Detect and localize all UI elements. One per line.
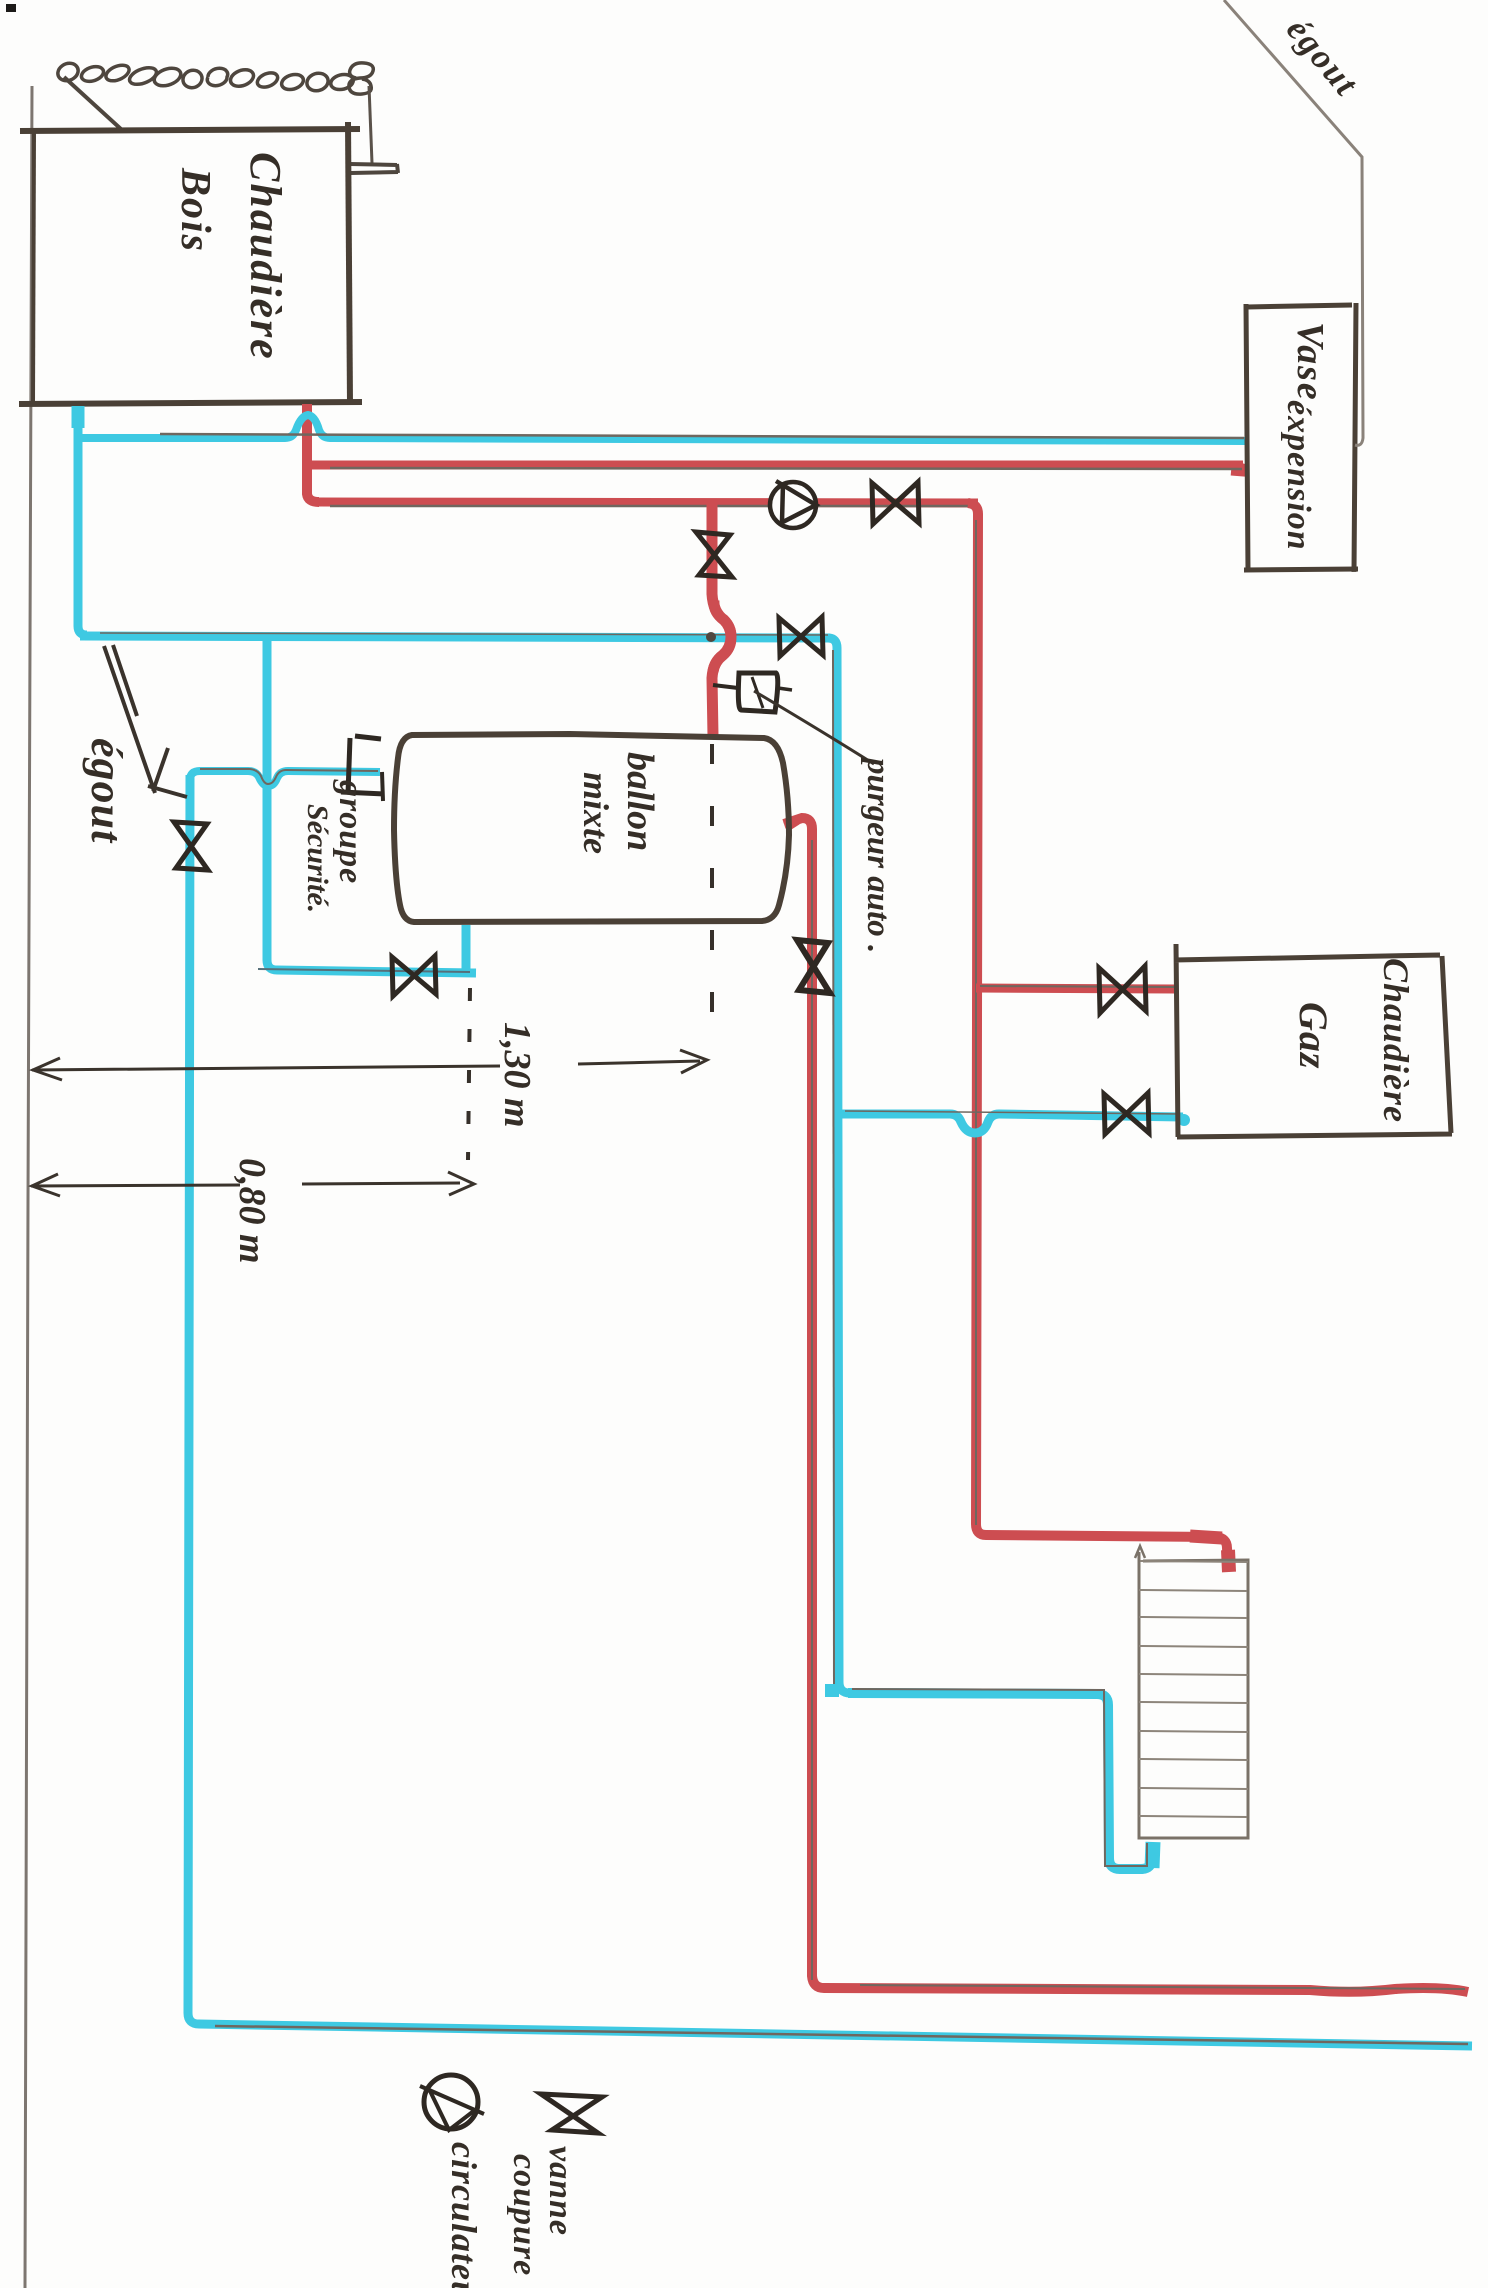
- box: gas boiler (Chaudiere Gaz): [1174, 944, 1452, 1137]
- wire: left wall pencil line: [25, 86, 32, 2288]
- pipe: red hot supply from wood boiler, vertical drop x=307: [307, 404, 319, 502]
- valve V8 on red lower line (bowtie): [872, 482, 919, 524]
- pipe: cyan safety-group line y=771 with hop over x=267: [190, 771, 380, 786]
- circulator pump on red lower line: [770, 482, 816, 528]
- safety group symbol: [355, 736, 381, 739]
- svg-text:égout: égout: [82, 738, 131, 844]
- dimension arrow 0.80 m: [31, 1183, 460, 1186]
- pencil: overflow pipe to sewer (egout): [1224, 0, 1363, 445]
- svg-text:Sécurité.: Sécurité.: [301, 804, 334, 913]
- dashed reference line x=712 (1.30 m height): [710, 744, 714, 1048]
- pipe: cyan drain long vertical x=189 down to bottom: [188, 775, 1472, 2046]
- svg-text:mixte: mixte: [576, 772, 616, 854]
- svg-text:Chaudière: Chaudière: [1376, 958, 1416, 1123]
- dashed reference line x=466 (0.80 m height): [468, 988, 470, 1160]
- pipe: red from tank hot port down long drop x=812: [784, 818, 1468, 1992]
- valve V6 on red gas supply (bowtie): [1099, 966, 1146, 1013]
- pipe: cyan horizontal y=636 to tank zone: [80, 636, 830, 638]
- svg-text:circulateur: circulateur: [444, 2142, 484, 2288]
- pipe: cyan radiator return y=1693: [848, 1693, 1152, 1869]
- svg-text:groupe: groupe: [332, 779, 369, 884]
- radiator: [1139, 1552, 1248, 1838]
- valve V7 on red tank outlet drop (hourglass): [797, 940, 830, 993]
- box: expansion vessel (Vase expansion): [1244, 303, 1358, 572]
- svg-text:1,30 m: 1,30 m: [496, 1022, 538, 1128]
- pipe: cyan down-riser x=837 to radiator return: [828, 638, 850, 1693]
- flue stub on right side of wood boiler: [350, 164, 398, 173]
- svg-text:ballon: ballon: [619, 752, 661, 851]
- svg-text:Chaudière: Chaudière: [241, 152, 290, 361]
- svg-text:éxpension: éxpension: [1280, 400, 1317, 551]
- pipe: cyan cold feed drop x=267 to tank bottom: [267, 636, 476, 975]
- pipe: red branch down to tank top with S-bump over cyan return: [712, 503, 731, 736]
- valve V1 on red drop (hourglass): [696, 532, 732, 577]
- arrow to drain pipe: [104, 645, 155, 793]
- pipe: red lower horizontal y=502 to pump: [316, 502, 978, 503]
- valve V3 on cyan y=971 (bowtie): [392, 956, 436, 996]
- pipe: cyan boiler return drop from box bottom x=78: [78, 406, 87, 635]
- pipe: red main riser x=976 down to radiator level: [968, 503, 1228, 1567]
- pencil guide on red upper: [330, 468, 1242, 469]
- valve V2 on cyan y=636 (bowtie): [779, 617, 823, 656]
- pipe: red upper horizontal y=464 to expansion vessel: [307, 461, 1243, 470]
- pipe: cyan horizontal y=437 to expansion vessel with hop over red: [78, 415, 1247, 441]
- corner speck: [6, 4, 16, 12]
- leader line to purgeur label: [754, 691, 874, 764]
- box: Chaudiere Bois (wood boiler): [20, 129, 360, 131]
- valve V4 on cyan drain (hourglass): [174, 822, 208, 870]
- pencil guide on red lower: [330, 505, 975, 508]
- svg-text:Bois: Bois: [172, 167, 218, 253]
- pipe: red branch to gas boiler y=988: [976, 988, 1177, 989]
- svg-text:Vase: Vase: [1289, 322, 1331, 402]
- dimension arrow 1.30 m: [32, 1061, 700, 1070]
- figure-8 end of coil: [349, 63, 373, 94]
- svg-text:Gaz: Gaz: [1291, 1002, 1336, 1069]
- legend: circulator: [424, 2075, 478, 2129]
- smoke coil above wood boiler: [58, 63, 353, 90]
- pipe: cyan gas boiler return y=1114 with under-hop at red riser: [837, 1114, 1183, 1133]
- svg-text:purgeur auto .: purgeur auto .: [860, 755, 896, 953]
- svg-text:0,80 m: 0,80 m: [231, 1158, 273, 1264]
- svg-text:coupure: coupure: [506, 2154, 543, 2276]
- red bump overlay (red hops over cyan): [713, 600, 731, 672]
- diagonal pencil stroke at top left: [64, 77, 122, 130]
- purgeur auto device: [738, 673, 777, 712]
- svg-text:vanne: vanne: [542, 2146, 579, 2236]
- legend: valve symbol: [541, 2094, 602, 2133]
- tank: ballon mixte outline: [394, 734, 789, 922]
- valve V5 on cyan gas return (bowtie): [1104, 1093, 1149, 1134]
- chimney line from coil down to flue stub: [369, 86, 372, 163]
